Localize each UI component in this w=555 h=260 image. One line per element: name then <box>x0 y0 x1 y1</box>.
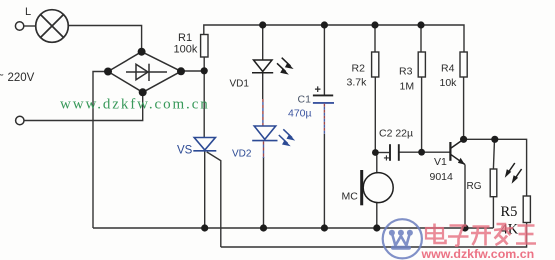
wire VD1 to VD2 upper part <box>262 73 264 99</box>
svg-text:VS: VS <box>177 145 193 157</box>
capacitor C1 <box>313 94 333 96</box>
wire R5 bottom to gate rail <box>221 223 527 248</box>
wire R4 bottom to collector <box>463 77 465 139</box>
svg-text:RG: RG <box>467 181 482 192</box>
wire RG top <box>493 139 494 169</box>
watermark red chinese characters <box>426 224 536 246</box>
wire C2 right to base <box>399 151 450 153</box>
capacitor C2 <box>390 144 399 161</box>
svg-text:3.7k: 3.7k <box>347 77 368 89</box>
svg-text:C2 22µ: C2 22µ <box>379 128 413 140</box>
svg-text:L: L <box>25 6 31 18</box>
photodiode VD1 <box>252 60 273 73</box>
svg-text:V1: V1 <box>434 156 447 168</box>
red-blue dashed wire C1 bottom <box>323 104 325 134</box>
lamp L <box>36 10 69 43</box>
wire bridge bottom to 220V terminal <box>24 92 142 120</box>
resistor R2 <box>372 52 379 77</box>
char kai <box>471 227 491 246</box>
svg-text:R3: R3 <box>399 66 413 78</box>
wire lamp to terminal <box>24 25 35 27</box>
wire R1 bottom down to VS <box>203 57 205 137</box>
svg-text:R4: R4 <box>441 63 455 75</box>
wire C1 bottom to rail <box>323 134 325 228</box>
wire collector to R5 top <box>464 139 527 196</box>
photodiode VD2 <box>252 126 277 141</box>
svg-text:9014: 9014 <box>430 171 454 183</box>
svg-text:220V: 220V <box>8 72 35 84</box>
wire R3 bottom to C2 junction <box>421 77 423 152</box>
svg-text:R5: R5 <box>501 204 518 220</box>
wire VS gate <box>207 152 221 247</box>
svg-text:+: + <box>384 154 390 165</box>
svg-text:~: ~ <box>0 70 4 82</box>
wire V1 emitter down <box>464 164 466 228</box>
wire R1 bottom to bridge right <box>181 70 204 72</box>
wire MC top <box>376 153 378 174</box>
svg-text:470µ: 470µ <box>288 108 312 120</box>
thyristor VS <box>193 138 216 151</box>
char fa <box>494 224 513 245</box>
char zi <box>448 226 469 246</box>
svg-text:R2: R2 <box>352 63 366 75</box>
wire VS cathode down to bottom rail <box>204 151 206 228</box>
svg-text:1M: 1M <box>400 81 415 93</box>
VD2 light arrows <box>279 129 295 146</box>
red-blue dashed wire below VD2 <box>263 142 265 159</box>
resistor R1 <box>201 35 208 58</box>
svg-text:VD1: VD1 <box>230 79 250 90</box>
photoresistor RG light arrows <box>505 163 522 184</box>
svg-text:+: + <box>315 84 321 96</box>
wire R2 column <box>374 25 376 52</box>
microphone MC <box>363 173 393 203</box>
wire C1 top <box>323 25 325 95</box>
svg-text:MC: MC <box>342 191 359 203</box>
terminal bottom <box>16 116 24 124</box>
svg-text:100k: 100k <box>174 44 198 56</box>
red-blue dashed wire VD1 to VD2 <box>262 99 264 126</box>
wire bridge left to bottom rail <box>93 72 108 229</box>
resistor R5 <box>523 196 530 223</box>
resistor R3 <box>418 52 425 77</box>
wire C2 left <box>375 152 389 154</box>
wire VD2 bottom to rail <box>263 157 265 228</box>
watermark W logo <box>383 219 422 258</box>
svg-text:10k: 10k <box>440 77 458 89</box>
transistor V1 <box>450 139 465 164</box>
char wang <box>516 226 536 244</box>
char dian <box>426 224 446 244</box>
wire VD1 column top <box>262 25 264 60</box>
wire R3 column <box>420 25 422 52</box>
VD1 light arrows <box>277 58 294 75</box>
wire RG bottom <box>492 197 494 228</box>
photoresistor RG body <box>490 169 497 197</box>
svg-text:www.dzkfw.com.cn: www.dzkfw.com.cn <box>60 97 210 113</box>
terminal top <box>15 22 23 30</box>
svg-text:www.dzkfw.com.cn: www.dzkfw.com.cn <box>421 247 535 260</box>
wire top rail <box>204 25 464 52</box>
svg-text:VD2: VD2 <box>232 149 252 160</box>
wire MC bottom <box>376 202 378 228</box>
svg-text:C1: C1 <box>298 94 312 106</box>
bridge junction dots <box>104 48 185 97</box>
wire bottom rail 1 <box>93 227 493 229</box>
bridge rectifier <box>108 52 181 93</box>
wire R2 bottom to C2 junction <box>374 77 376 153</box>
svg-text:R1: R1 <box>178 32 192 44</box>
resistor R4 <box>460 52 467 77</box>
wire lamp to bridge top <box>69 26 142 52</box>
